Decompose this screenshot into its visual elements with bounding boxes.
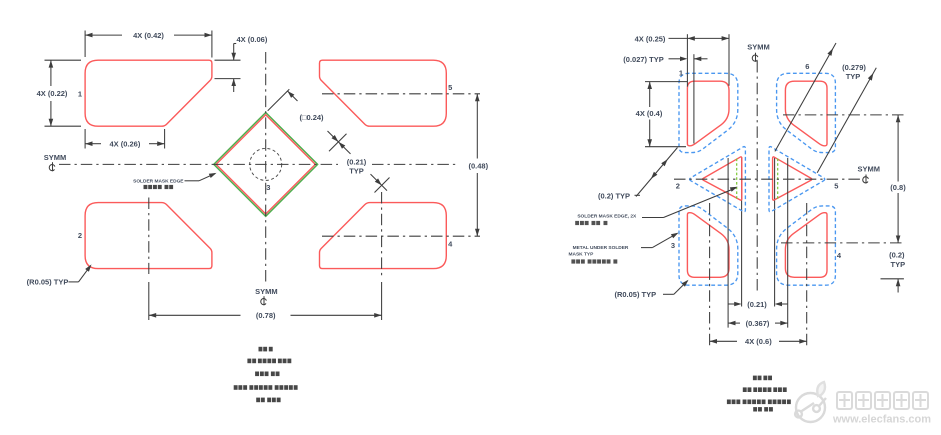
dim 4X (0.26)	[84, 129, 86, 149]
svg-text:(0.367): (0.367)	[746, 319, 770, 328]
svg-text:SOLDER MASK EDGE, 2X: SOLDER MASK EDGE, 2X	[577, 213, 637, 219]
pad3 column centerline	[709, 203, 711, 346]
svg-text:1: 1	[78, 89, 82, 98]
svg-text:(0.2) TYP: (0.2) TYP	[598, 191, 630, 200]
dim (0.027) TYP	[669, 58, 684, 60]
svg-text:METAL UNDER SOLDER: METAL UNDER SOLDER	[573, 245, 629, 251]
vertical symm centerline	[265, 52, 267, 283]
svg-text:2: 2	[676, 181, 680, 190]
pad 2 triangle (red) + mask (blue) + paste edge (green)	[690, 147, 746, 212]
svg-text:SYMM: SYMM	[44, 153, 67, 162]
svg-text:5: 5	[834, 181, 838, 190]
svg-text:(0.027) TYP: (0.027) TYP	[623, 55, 663, 64]
svg-text:4X (0.06): 4X (0.06)	[237, 35, 268, 44]
extension line (0.21) right	[774, 157, 776, 307]
right horizontal symm centerline	[674, 178, 860, 180]
pad 4	[777, 206, 836, 285]
svg-text:4X (0.42): 4X (0.42)	[133, 31, 164, 40]
dim 4X (0.42)	[84, 31, 86, 58]
right vertical symm centerline	[756, 61, 758, 294]
center via circle (dashed)	[250, 148, 282, 180]
svg-text:4X (0.26): 4X (0.26)	[109, 140, 140, 149]
svg-text:(R0.05) TYP: (R0.05) TYP	[27, 278, 69, 287]
dim 4X (0.06)	[215, 59, 241, 61]
dim (0.48)	[476, 94, 478, 159]
pad4 row centerline	[322, 235, 480, 237]
dim 4X (0.4)	[649, 82, 651, 107]
pad 3 solder mask edge (green diamond)	[214, 113, 318, 217]
svg-text:(0.2): (0.2)	[889, 251, 905, 260]
svg-text:www.elecfans.com: www.elecfans.com	[832, 414, 931, 426]
dim 4X (0.25)	[669, 37, 730, 39]
svg-text:3: 3	[671, 241, 675, 250]
dim (0.8)	[897, 115, 899, 182]
svg-text:1: 1	[679, 69, 683, 78]
dim 4X (0.6) bottom	[710, 340, 737, 342]
pad6 row centerline	[783, 114, 904, 116]
svg-text:(□0.24): (□0.24)	[299, 113, 324, 122]
svg-text:5: 5	[448, 83, 452, 92]
dim 4X (0.22)	[45, 59, 82, 61]
dim (0.21) bottom	[728, 303, 737, 305]
diagonal dim (0.24) / (0.21) TYP	[268, 89, 290, 111]
svg-text:4X (0.25): 4X (0.25)	[635, 35, 666, 44]
svg-text:TYP: TYP	[891, 260, 906, 269]
dim (0.78)	[149, 314, 241, 316]
dim (0.367) bottom	[728, 322, 740, 324]
svg-text:6: 6	[805, 62, 809, 71]
pad 4	[320, 203, 447, 269]
svg-text:SYMM: SYMM	[255, 287, 278, 296]
svg-text:(0.279): (0.279)	[842, 63, 866, 72]
pad4 column centerline	[806, 203, 808, 346]
dim (0.279) TYP diagonals	[775, 43, 836, 151]
svg-text:SYMM: SYMM	[747, 43, 770, 52]
watermark CJK text (simulated)	[837, 392, 928, 409]
svg-text:TYP: TYP	[349, 167, 364, 176]
pad 1	[85, 60, 212, 126]
svg-text:4X (0.6): 4X (0.6)	[745, 337, 772, 346]
svg-text:4X (0.4): 4X (0.4)	[636, 109, 663, 118]
pad 5 triangle	[769, 147, 825, 212]
svg-text:(0.8): (0.8)	[890, 183, 906, 192]
svg-text:SYMM: SYMM	[857, 165, 880, 174]
extension line (0.21) left	[741, 157, 743, 307]
pad4 row centerline	[781, 242, 904, 244]
svg-text:TYP: TYP	[846, 72, 861, 81]
pad 3	[679, 206, 738, 285]
extension lines for dims	[686, 34, 688, 86]
horizontal symm centerline	[59, 163, 338, 165]
svg-text:(R0.05) TYP: (R0.05) TYP	[614, 290, 656, 299]
right notes text block	[753, 376, 757, 381]
svg-text:MASK TYP: MASK TYP	[569, 252, 595, 258]
svg-text:SOLDER MASK EDGE: SOLDER MASK EDGE	[133, 178, 184, 184]
pad5 row centerline	[322, 93, 480, 95]
pad 2	[85, 203, 212, 269]
pad4 column centerline	[381, 192, 383, 276]
elecfans watermark logo	[795, 382, 826, 422]
left notes text block	[259, 347, 263, 352]
svg-text:(0.21): (0.21)	[347, 157, 367, 166]
svg-text:4X (0.22): 4X (0.22)	[37, 89, 68, 98]
svg-text:(0.21): (0.21)	[747, 300, 767, 309]
pad 6	[777, 73, 836, 152]
pad 3 metal (red diamond)	[216, 115, 315, 214]
pad 1 paste (red) + mask (blue)	[679, 73, 738, 152]
svg-text:(0.48): (0.48)	[469, 162, 489, 171]
pad 5	[320, 60, 447, 126]
pad2 column centerline	[148, 198, 150, 275]
svg-text:(0.78): (0.78)	[256, 311, 276, 320]
svg-text:3: 3	[266, 183, 270, 192]
svg-text:2: 2	[78, 231, 82, 240]
